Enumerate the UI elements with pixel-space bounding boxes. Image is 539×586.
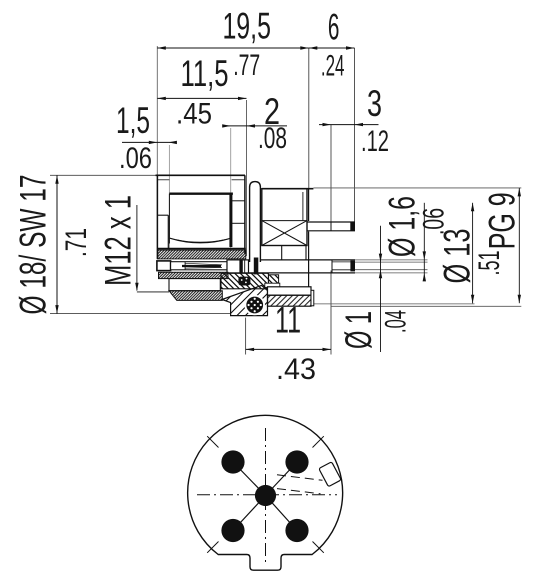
rim tick bottom-left bbox=[207, 542, 218, 553]
big O-ring section bbox=[244, 295, 265, 316]
extension line y175.3 left bbox=[50, 174, 156, 176]
bore step horizontal bbox=[157, 214, 168, 216]
extension line x331 upper bbox=[330, 125, 332, 222]
arrows PG9 bbox=[518, 188, 521, 197]
dim dia13 line bbox=[472, 203, 474, 303]
dim 11 line bbox=[246, 348, 331, 350]
dim 11,5 line bbox=[157, 97, 246, 99]
svg-text:.08: .08 bbox=[258, 122, 287, 155]
svg-text:6: 6 bbox=[328, 7, 340, 48]
rim tick top-right bbox=[313, 436, 324, 447]
lower insert box left wall bbox=[281, 246, 283, 260]
insulator top edge bbox=[169, 192, 233, 194]
dim 3 line bbox=[319, 124, 379, 126]
dashed keyway lines bbox=[277, 475, 323, 481]
svg-text:.24: .24 bbox=[321, 49, 345, 82]
svg-text:PG 9: PG 9 bbox=[482, 192, 523, 249]
flange seal band hatched bbox=[221, 273, 269, 289]
thread minor line right bbox=[232, 179, 245, 181]
extension line y306.3 right bbox=[331, 305, 521, 307]
contact transition piece bbox=[227, 260, 249, 273]
dim dia18 line bbox=[56, 175, 58, 313]
crosshair vertical dash-dot bbox=[265, 428, 267, 562]
svg-text:.12: .12 bbox=[361, 125, 389, 158]
leader M12x1 bbox=[136, 205, 138, 291]
svg-text:1,5: 1,5 bbox=[116, 100, 150, 141]
lower insert box right wall bbox=[305, 246, 307, 261]
face outline circle with bottom tab bbox=[188, 415, 343, 570]
insulator meniscus curve bbox=[170, 238, 231, 243]
arrows 11 bbox=[246, 348, 255, 351]
socket step upper bbox=[232, 200, 245, 202]
hatch band 1 (M12 thread section) bbox=[157, 249, 245, 259]
sleeve ferrule black bar bbox=[254, 258, 258, 275]
front lower white block bbox=[169, 279, 220, 291]
arrows dia1 (outside) bbox=[379, 254, 382, 263]
nut right step bbox=[311, 290, 314, 306]
extension line x169.4 bbox=[168, 145, 170, 250]
extension line x331 lower bbox=[330, 271, 332, 355]
dim PG9 line bbox=[518, 188, 520, 303]
svg-text:.71: .71 bbox=[60, 228, 93, 257]
arrows dia13 bbox=[471, 203, 474, 212]
svg-text:.45: .45 bbox=[176, 98, 212, 131]
insulator left edge bbox=[168, 194, 170, 244]
front shroud top edge bbox=[156, 174, 246, 176]
front contact tip box bbox=[157, 261, 171, 271]
dim 19,5 line bbox=[157, 47, 308, 49]
insulator right bar bbox=[229, 194, 232, 247]
dim 6 line bbox=[309, 47, 355, 49]
arrows dia1,6 (outside) bbox=[423, 251, 426, 260]
extension line x246.5 bbox=[246, 100, 248, 256]
front shroud left edge bbox=[156, 175, 158, 260]
spokes to pins bbox=[233, 462, 297, 531]
sleeve diameter extension lines bbox=[355, 260, 428, 273]
crosshair horizontal dash-dot bbox=[197, 494, 337, 496]
svg-text:19,5: 19,5 bbox=[222, 5, 271, 46]
extension line x308.8 bbox=[308, 48, 310, 188]
arrows 6 bbox=[309, 46, 318, 49]
dim dia1,6 line bbox=[423, 203, 425, 280]
thread minor line left bbox=[157, 179, 169, 181]
flange wedge lower hatched bbox=[222, 285, 268, 315]
nut strip white bbox=[268, 287, 312, 295]
extension line y313.6 bbox=[50, 313, 230, 315]
pin 1 dot bbox=[221, 450, 244, 473]
thread bottom line bbox=[137, 291, 169, 293]
extension line y303.9 right bbox=[314, 303, 475, 305]
svg-text:Ø 1,6: Ø 1,6 bbox=[382, 196, 423, 257]
small O-ring section bbox=[238, 277, 250, 286]
arrows 11,5 bbox=[157, 97, 166, 100]
dim 2 line bbox=[223, 125, 288, 127]
socket rear edge bbox=[244, 175, 246, 254]
extension line y187.9 right bbox=[313, 187, 521, 189]
pin 3 dot bbox=[221, 519, 244, 542]
nut hatch block bbox=[268, 295, 312, 306]
svg-text:M12 x 1: M12 x 1 bbox=[98, 195, 139, 286]
svg-text:11: 11 bbox=[275, 300, 301, 341]
arrows 3 (outside) bbox=[323, 123, 332, 126]
extension line x245.6 lower bbox=[245, 318, 247, 355]
dim 1,5 line bbox=[122, 141, 177, 143]
bore vertical bbox=[167, 215, 169, 248]
svg-text:11,5: 11,5 bbox=[181, 53, 229, 94]
collar white step bbox=[265, 283, 280, 287]
arrows 2 (outside) bbox=[222, 124, 231, 127]
front lower band 2 hatch bbox=[159, 272, 229, 278]
upper solder pin bbox=[307, 222, 355, 231]
keyway notch bbox=[319, 462, 341, 487]
center contact sleeve bbox=[249, 260, 356, 273]
rear contact block with X bbox=[262, 189, 307, 246]
svg-text:.51: .51 bbox=[473, 251, 506, 276]
rim tick top-left bbox=[207, 436, 218, 447]
collar hatch bbox=[268, 275, 278, 285]
pin 5 center dot bbox=[255, 485, 276, 506]
dim dia1 line bbox=[380, 226, 382, 352]
extension line left x157 bbox=[156, 46, 158, 258]
svg-text:.06: .06 bbox=[119, 142, 152, 175]
rear insert dome bbox=[250, 182, 261, 262]
arrows 19,5 bbox=[157, 46, 166, 49]
extension line x230.7 bbox=[230, 128, 232, 250]
rear body right face bbox=[303, 189, 309, 287]
pin 2 dot bbox=[285, 450, 308, 473]
svg-text:.04: .04 bbox=[380, 310, 413, 333]
arrows dia18 bbox=[55, 175, 58, 184]
arrow leader M12 bbox=[135, 283, 138, 292]
socket step lower bbox=[232, 222, 245, 224]
svg-text:3: 3 bbox=[367, 83, 382, 124]
svg-text:.43: .43 bbox=[276, 353, 316, 386]
front lower hatch 3 bbox=[169, 291, 222, 301]
rear body top edge bbox=[262, 188, 314, 190]
pin 4 dot bbox=[285, 519, 308, 542]
svg-text:.77: .77 bbox=[233, 49, 260, 82]
collet body bbox=[171, 262, 227, 270]
svg-text:.06: .06 bbox=[418, 208, 451, 235]
arrows 1,5 (outside) bbox=[149, 141, 158, 144]
rim tick bottom-right bbox=[313, 542, 324, 553]
svg-text:Ø 18/ SW 17: Ø 18/ SW 17 bbox=[12, 175, 53, 315]
extension line x354.5 bbox=[354, 48, 356, 222]
svg-text:Ø 13: Ø 13 bbox=[437, 229, 478, 284]
svg-text:Ø 1: Ø 1 bbox=[338, 311, 379, 349]
